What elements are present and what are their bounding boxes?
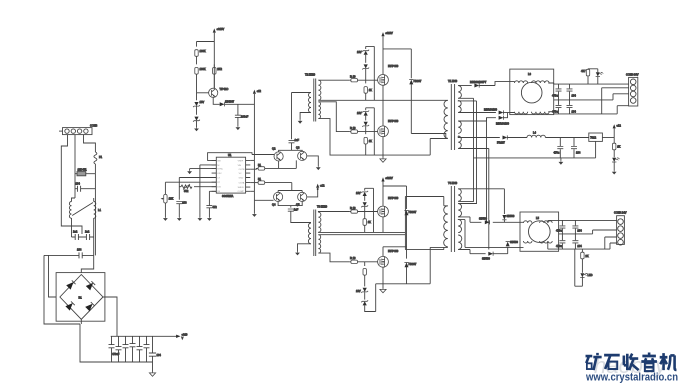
- svg-text:100K: 100K: [200, 49, 206, 53]
- svg-text:4K7: 4K7: [581, 69, 586, 73]
- ground T3: [295, 252, 300, 256]
- ground led2: [612, 171, 617, 175]
- label U1 pins: [217, 160, 245, 193]
- transistor Q5: [298, 192, 307, 201]
- capacitor C10: [206, 206, 212, 217]
- svg-text:LED: LED: [588, 273, 593, 277]
- op-amp U2 regulator 7812: [589, 133, 603, 158]
- transistor Q3: [298, 151, 307, 160]
- wire T4 sec1 top feed: [458, 189, 504, 214]
- svg-text:2n2: 2n2: [73, 230, 78, 234]
- ground aux out: [559, 161, 564, 165]
- svg-text:SB560: SB560: [507, 214, 515, 218]
- zener clamp DZ2: [362, 108, 374, 155]
- svg-text:V: V: [182, 336, 184, 340]
- wire out2 pin3: [605, 237, 617, 249]
- capacitor C20: [572, 220, 578, 234]
- ground ic4: [163, 217, 168, 221]
- ground T2: [298, 120, 303, 124]
- ground drv2: [252, 213, 257, 217]
- svg-text:+310: +310: [182, 333, 188, 337]
- transistor Q4: [274, 192, 283, 201]
- svg-text:1uF: 1uF: [294, 208, 299, 212]
- diode D6 snubber: [404, 262, 408, 283]
- svg-text:100uF: 100uF: [241, 115, 249, 119]
- svg-text:INV: INV: [217, 160, 221, 162]
- svg-text:103: 103: [182, 201, 187, 205]
- capacitor C9: [176, 202, 182, 218]
- svg-text:Q2: Q2: [272, 147, 276, 151]
- svg-text:1K: 1K: [368, 220, 371, 224]
- wire pinR1 to rail: [250, 159, 254, 161]
- connector J3 output: [617, 216, 625, 245]
- wire out2 rail top: [548, 220, 617, 223]
- wire out1 rail mid: [554, 94, 629, 100]
- wire pinR8 to rail: [250, 190, 254, 192]
- resistor R9: [364, 137, 367, 155]
- svg-text:Q4: Q4: [272, 203, 276, 207]
- net arrow +12 out: [613, 124, 622, 141]
- svg-text:MBR30100: MBR30100: [484, 108, 498, 112]
- wire M3 drain: [383, 182, 407, 210]
- wire bus E: [486, 118, 488, 223]
- transformer T1 main upper: [444, 84, 461, 150]
- resistor R6 gate M1: [349, 79, 377, 82]
- svg-text:VC: VC: [239, 173, 242, 175]
- transistor M2 mosfet: [378, 126, 389, 137]
- diode D10 aux: [458, 135, 527, 139]
- wire center tap A: [458, 98, 473, 201]
- svg-text:470u: 470u: [552, 110, 558, 114]
- wire T3 sec1 top to M3 gate row: [318, 211, 349, 214]
- fuse F1: [94, 152, 97, 174]
- net arrow +12 node: [316, 184, 325, 190]
- net arrow +310V: [176, 333, 188, 341]
- wire T3 sec2 top rail: [318, 234, 405, 236]
- wire L from connector pin3 to fuse branch: [84, 135, 96, 152]
- wire out1 pin2: [602, 88, 629, 114]
- svg-text:IRFP460: IRFP460: [388, 119, 399, 123]
- diode D8 rectifier: [458, 110, 510, 114]
- wire M4 source row: [376, 247, 448, 288]
- resistor R12 gate M4: [349, 260, 377, 263]
- svg-text:SHDN: SHDN: [238, 187, 244, 189]
- wire out2 pin4: [610, 243, 617, 249]
- wire Q2 emitter junction: [279, 160, 297, 168]
- resistor R15: [581, 249, 584, 273]
- svg-text:OUTB: OUTB: [239, 169, 245, 171]
- svg-text:104: 104: [577, 229, 582, 233]
- svg-text:104: 104: [157, 353, 162, 357]
- svg-text:CON4 36V: CON4 36V: [626, 73, 639, 77]
- wire aux rail down: [197, 33, 215, 89]
- svg-text:DIS: DIS: [217, 187, 221, 189]
- svg-text:VREF: VREF: [238, 160, 244, 162]
- svg-text:104: 104: [572, 110, 577, 114]
- wire Q5 right to +12 node: [307, 189, 318, 197]
- svg-text:L3: L3: [528, 72, 531, 76]
- resistor R3: [213, 42, 216, 89]
- transistor Q2: [274, 152, 283, 161]
- svg-text:10D471: 10D471: [78, 167, 88, 171]
- capacitor C22: [572, 234, 578, 249]
- inductor L3 choke box upper: [510, 69, 554, 115]
- wire pin3 to ground: [190, 169, 217, 171]
- svg-text:NI: NI: [217, 165, 220, 167]
- svg-text:T3 EE19: T3 EE19: [317, 205, 328, 209]
- svg-text:OSC: OSC: [217, 173, 222, 175]
- diode LED2: [612, 158, 620, 171]
- wire out2 row1: [458, 217, 520, 222]
- diode D13 rectifier: [458, 247, 508, 255]
- wire snubber1: [383, 49, 411, 78]
- svg-text:1uF: 1uF: [295, 138, 300, 142]
- wire pin8 branch: [209, 191, 216, 205]
- wire out2 pin2: [593, 230, 617, 234]
- capacitor CX2: [79, 252, 82, 258]
- ground drv1: [316, 166, 321, 170]
- svg-text:470uF: 470uF: [112, 352, 120, 356]
- svg-text:T2 EE19: T2 EE19: [305, 73, 316, 77]
- wire out1 rail top: [548, 83, 628, 84]
- diode LED1: [596, 69, 604, 84]
- svg-text:R 10: R 10: [350, 206, 356, 210]
- capacitor C17: [557, 138, 563, 158]
- svg-text:L4: L4: [533, 131, 536, 135]
- wire M2 source to ground: [345, 137, 430, 158]
- varistor RV1: [75, 172, 95, 176]
- svg-text:104: 104: [77, 248, 82, 252]
- capacitor C18: [571, 138, 577, 158]
- svg-text:Q3: Q3: [296, 146, 300, 150]
- node +12 dot: [317, 188, 319, 190]
- svg-text:+12: +12: [320, 184, 325, 188]
- wire base: [197, 92, 209, 94]
- ground ic5: [207, 217, 212, 221]
- resistor R2: [195, 68, 198, 93]
- capacitor CY1: [72, 234, 83, 240]
- svg-text:COMP: COMP: [238, 191, 245, 193]
- svg-text:T1 EI40: T1 EI40: [448, 79, 458, 83]
- wire cap bank top rail: [111, 335, 178, 337]
- capacitor C12 coupling: [288, 209, 311, 223]
- wire base rail to ground: [254, 200, 273, 213]
- wire M2 drain to midpoint: [382, 100, 384, 126]
- wire AC2 left drop: [44, 255, 80, 324]
- svg-text:OUTA: OUTA: [239, 182, 245, 185]
- transistor Q1: [209, 88, 218, 97]
- svg-text:MBR30100PT: MBR30100PT: [470, 80, 487, 84]
- capacitor CX1: [75, 174, 95, 256]
- svg-text:104: 104: [76, 182, 81, 186]
- wire M3 source: [382, 217, 384, 233]
- svg-text:GND: GND: [239, 177, 244, 179]
- svg-text:+310V: +310V: [385, 31, 393, 35]
- svg-text:F1: F1: [99, 155, 103, 159]
- svg-text:L5: L5: [536, 216, 539, 220]
- resistor R11: [363, 212, 366, 233]
- capacitor C11 coupling: [289, 93, 312, 151]
- diode LED3: [575, 249, 588, 286]
- svg-text:+12: +12: [257, 89, 262, 93]
- svg-text:7812: 7812: [590, 136, 596, 140]
- svg-text:502: 502: [184, 189, 189, 193]
- capacitor C2 bulk: [116, 336, 122, 362]
- svg-text:+12: +12: [616, 124, 621, 128]
- svg-text:FR107: FR107: [497, 141, 505, 145]
- svg-text:B1: B1: [79, 296, 83, 300]
- ground M4: [380, 288, 386, 293]
- resistor R4: [250, 167, 296, 170]
- svg-text:470u: 470u: [556, 229, 562, 233]
- wire AC1 to bridge top: [81, 255, 93, 272]
- resistor R5: [250, 181, 291, 191]
- svg-text:SYNC: SYNC: [217, 169, 223, 171]
- svg-text:18V: 18V: [356, 289, 361, 293]
- svg-text:R 10: R 10: [350, 256, 356, 260]
- capacitor C3 bulk: [123, 336, 129, 362]
- wire emitter row: [213, 97, 217, 104]
- svg-text:104: 104: [576, 151, 581, 155]
- svg-text:2K2: 2K2: [217, 67, 222, 71]
- diode D3: [217, 102, 254, 106]
- wire M1 source row: [341, 85, 448, 100]
- diode D11 rectifier: [502, 215, 506, 222]
- capacitor C1 bulk: [109, 336, 115, 362]
- wire bridge minus to bottom rail: [80, 319, 111, 362]
- wire aux gnd rail: [474, 158, 596, 161]
- zener clamp DZ4: [361, 262, 375, 312]
- wire pin2 drop: [200, 165, 216, 217]
- svg-text:100K: 100K: [200, 67, 206, 71]
- svg-text:TIP41C: TIP41C: [220, 87, 229, 91]
- svg-text:SB560: SB560: [479, 217, 487, 221]
- resistor R7: [364, 87, 367, 101]
- resistor R8 gate M2: [349, 130, 377, 133]
- wire T2 sec1 bottom to source row: [318, 99, 341, 101]
- capacitor C13: [556, 84, 562, 100]
- ground ic3: [177, 217, 182, 221]
- wire T3 left winding bottom to ground: [298, 244, 312, 252]
- wire T2 sec1 top to gate row: [318, 79, 349, 81]
- net arrow +310V aux: [213, 27, 225, 33]
- svg-text:FR307: FR307: [409, 210, 417, 214]
- potentiometer RP1: [161, 194, 167, 217]
- transistor M1 mosfet: [378, 75, 389, 86]
- ground ic1: [198, 217, 203, 221]
- capacitor C7: [149, 336, 156, 362]
- capacitor C16: [567, 100, 573, 114]
- wire Q3 collector to ground: [307, 156, 319, 166]
- zener clamp DZ1: [362, 46, 374, 100]
- resistor R1: [195, 50, 198, 65]
- ground ic2: [187, 170, 192, 174]
- resistor R13 led: [586, 69, 598, 84]
- capacitor CY2: [82, 234, 94, 240]
- svg-text:IRFP460: IRFP460: [388, 249, 399, 253]
- connector J1 AC input: [59, 128, 92, 135]
- svg-text:IRFP460: IRFP460: [388, 64, 399, 68]
- diode D4 snubber: [409, 80, 446, 139]
- wire primary2 loop box: [405, 197, 447, 250]
- zener clamp DZ3: [361, 188, 373, 232]
- ground M2: [380, 158, 386, 163]
- svg-text:18V: 18V: [356, 191, 361, 195]
- resistor R10 gate M3: [349, 210, 377, 213]
- svg-text:472: 472: [212, 205, 217, 209]
- connector J2 output: [629, 77, 638, 106]
- capacitor C8: [235, 104, 241, 126]
- zener D1: [193, 93, 200, 107]
- svg-text:T4 EI40: T4 EI40: [448, 181, 458, 185]
- svg-text:15V: 15V: [200, 100, 205, 104]
- svg-text:18V: 18V: [357, 111, 362, 115]
- svg-text:IRFP460: IRFP460: [388, 196, 399, 200]
- wire M4 drain link: [383, 247, 407, 257]
- ground aux2: [236, 126, 241, 130]
- wire +12 vertical rail: [253, 94, 255, 201]
- capacitor C4 bulk: [130, 336, 136, 362]
- svg-text:104: 104: [572, 94, 577, 98]
- resistor R14: [613, 140, 616, 157]
- svg-text:+310V: +310V: [217, 27, 225, 31]
- svg-text:1N4007: 1N4007: [225, 100, 235, 104]
- ground aux1: [194, 127, 199, 131]
- svg-text:51: 51: [258, 177, 261, 181]
- svg-text:10K: 10K: [169, 197, 174, 201]
- wire primary1 return: [430, 139, 448, 156]
- svg-text:1K: 1K: [369, 88, 372, 92]
- wire out2 rail mid: [559, 233, 593, 235]
- wire out2 row2: [458, 219, 520, 247]
- svg-text:+310V: +310V: [385, 176, 393, 180]
- wire lower emitters to cap: [278, 202, 302, 208]
- wire T2 sec2 top to M2 gate: [318, 102, 349, 132]
- diode D7 rectifier: [458, 82, 510, 88]
- zener D2: [193, 106, 200, 127]
- svg-text:1K: 1K: [369, 139, 372, 143]
- svg-text:104: 104: [577, 244, 582, 248]
- capacitor C14: [567, 84, 573, 100]
- transformer T3 gate drive lower: [308, 210, 321, 257]
- svg-text:MBR30100: MBR30100: [496, 122, 510, 126]
- svg-text:2n2: 2n2: [85, 230, 90, 234]
- svg-text:18V: 18V: [357, 50, 362, 54]
- common mode choke L1: [69, 198, 95, 255]
- wire T3 sec1 bottom rail: [318, 231, 405, 233]
- svg-text:RT: RT: [217, 182, 220, 184]
- wire driver top link: [279, 150, 303, 152]
- wire cap bank bottom to ground: [111, 362, 153, 372]
- net arrow +310V M1: [381, 31, 393, 36]
- svg-text:FR307: FR307: [409, 262, 417, 266]
- wire N from connector pin2 down: [74, 135, 76, 198]
- wire out1 rail bottom: [548, 106, 628, 114]
- wire regulator out: [602, 137, 614, 139]
- ground main: [149, 372, 155, 377]
- net arrow +12 driver: [253, 89, 262, 94]
- capacitor C6 bulk: [144, 336, 150, 362]
- capacitor C19: [559, 220, 565, 234]
- inductor L5 choke box lower: [520, 212, 559, 251]
- inductor L4: [527, 135, 589, 137]
- svg-text:www.crystalradio.cn: www.crystalradio.cn: [585, 372, 678, 383]
- wire bridge plus to cap bank: [103, 297, 117, 336]
- svg-text:470u: 470u: [554, 151, 560, 155]
- wire pin6 branch: [165, 182, 216, 194]
- svg-text:VIN: VIN: [238, 165, 242, 167]
- wire vcc rail to drivers: [252, 154, 274, 156]
- wire center tap B: [458, 101, 476, 204]
- transformer T2 gate drive upper: [309, 79, 321, 122]
- bridge rectifier B1: [56, 273, 105, 322]
- svg-text:SB560: SB560: [482, 257, 490, 261]
- wire out2 rail bottom: [548, 241, 610, 249]
- wire T2 sec2 bottom to M2 source row: [318, 119, 345, 156]
- wire X2 rail: [44, 254, 94, 256]
- wire lower driver top link: [278, 191, 302, 193]
- wire pin1 loop: [208, 153, 252, 161]
- svg-text:R 10: R 10: [350, 75, 356, 79]
- svg-text:U1: U1: [228, 153, 232, 157]
- svg-text:470u: 470u: [556, 244, 562, 248]
- svg-text:CON3: CON3: [90, 124, 98, 128]
- diode D14 rectifier: [506, 242, 510, 247]
- capacitor C15: [556, 100, 562, 114]
- svg-text:R 10: R 10: [350, 126, 356, 130]
- svg-text:470u: 470u: [552, 94, 558, 98]
- svg-text:CON4 24V: CON4 24V: [614, 211, 627, 215]
- net arrow +310V M3: [381, 176, 393, 181]
- capacitor C5 bulk: [137, 336, 143, 362]
- svg-text:L1: L1: [98, 208, 101, 212]
- capacitor C21: [559, 234, 565, 249]
- svg-text:1K: 1K: [617, 145, 620, 149]
- diode D5 snubber: [404, 210, 408, 258]
- transistor M4 mosfet: [378, 256, 389, 267]
- wire bus F: [458, 149, 489, 250]
- watermark logo text: [586, 353, 677, 372]
- svg-text:2K: 2K: [585, 254, 588, 258]
- svg-text:FR307: FR307: [414, 79, 422, 83]
- wire PE from connector pin1 down and around: [61, 135, 82, 234]
- wire M1 drain: [382, 36, 384, 74]
- svg-text:SB560: SB560: [510, 240, 518, 244]
- svg-text:SG3525A: SG3525A: [222, 194, 234, 198]
- op-amp U1 SG3525 body: [212, 157, 251, 193]
- diode D12 rectifier: [485, 220, 490, 224]
- svg-text:CT: CT: [217, 177, 221, 179]
- transistor M3 mosfet: [378, 206, 389, 217]
- wire pin5 branch: [179, 178, 216, 200]
- wire T3 sec2 bottom to M4 gate: [318, 253, 349, 262]
- resistor RT zigzag: [179, 184, 216, 190]
- transformer T4 main lower: [444, 186, 462, 252]
- diode D9 rectifier: [458, 113, 507, 122]
- wire T2 left winding bottom to ground: [300, 113, 311, 120]
